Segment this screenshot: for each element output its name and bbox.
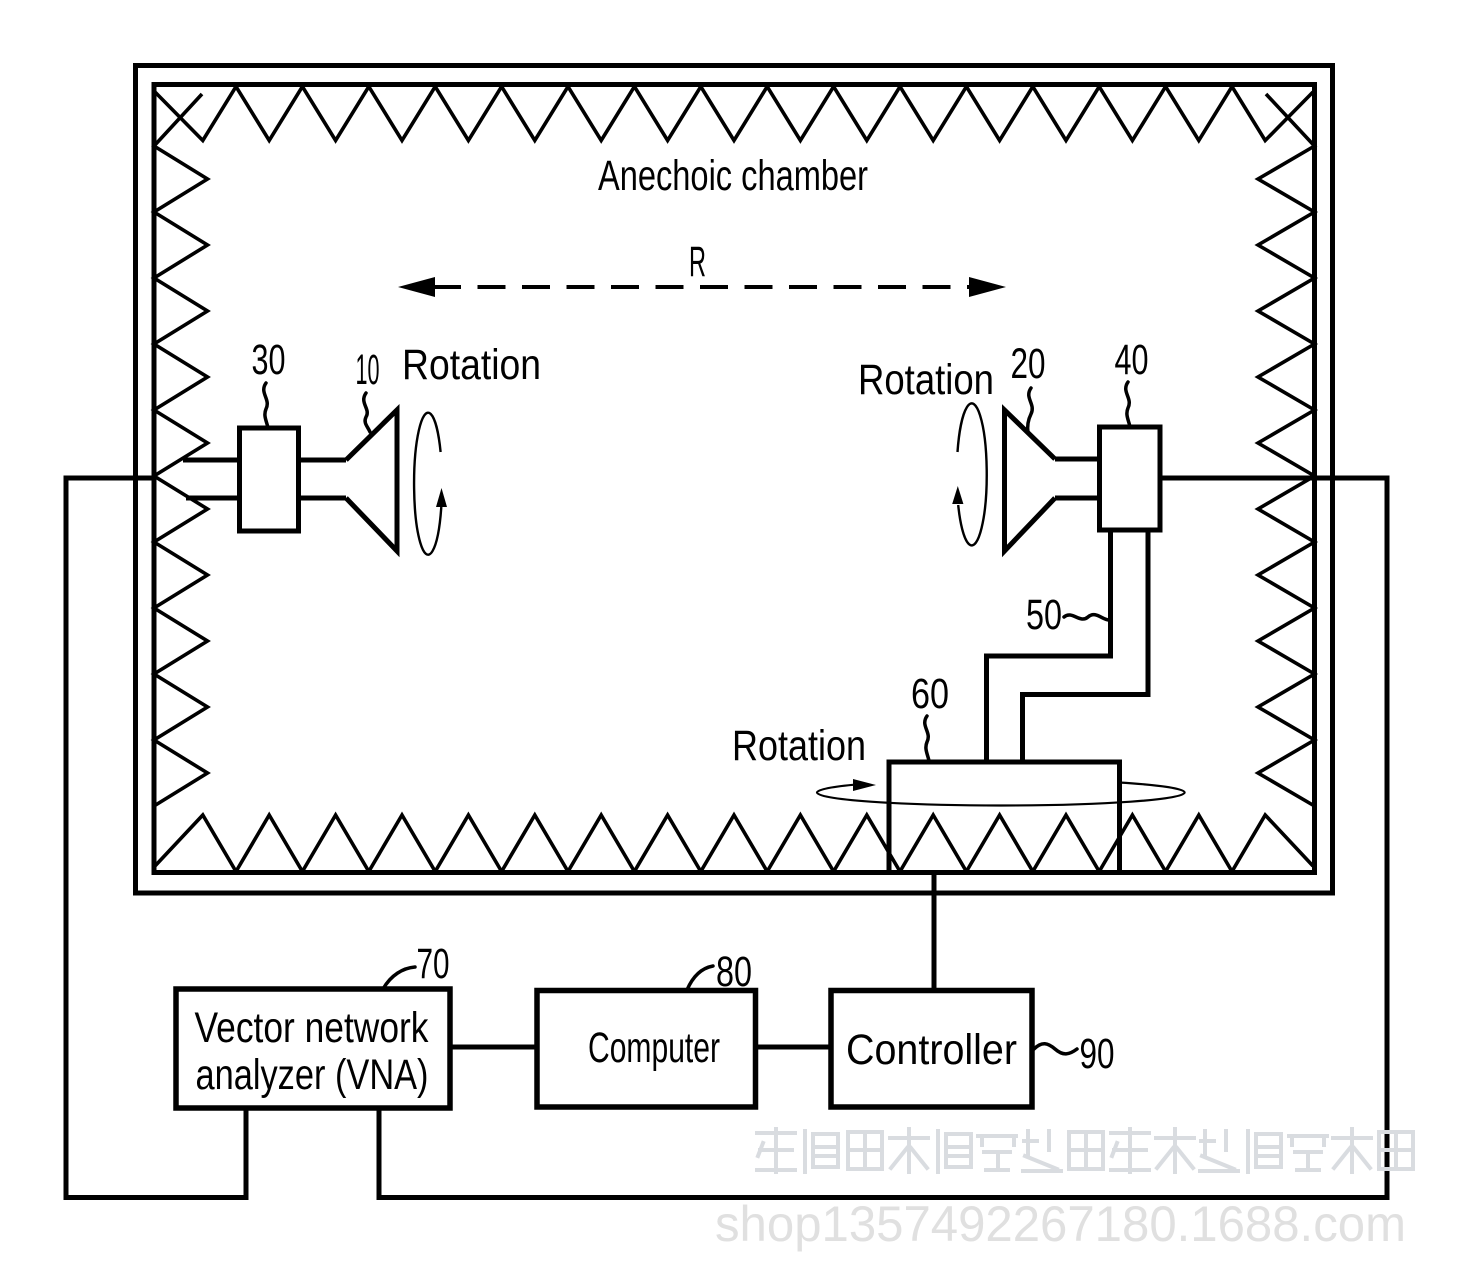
svg-text:10: 10: [356, 346, 380, 394]
wire VNA to transmit antenna (left exterior): [66, 478, 246, 1198]
leader line 50: [1064, 615, 1110, 620]
rotation ellipse left antenna: [414, 413, 441, 555]
wire positioner to controller: [932, 872, 937, 991]
box 90 controller: [831, 991, 1032, 1108]
leader line 40: [1126, 382, 1130, 427]
box 30 (antenna mount): [240, 428, 299, 531]
svg-text:R: R: [689, 238, 706, 286]
rotation ellipse positioner back arc right: [1119, 783, 1185, 793]
svg-text:60: 60: [911, 670, 949, 718]
horn antenna 10: [346, 410, 397, 551]
leader line 70: [383, 967, 415, 989]
absorber zigzag left wall: [154, 94, 208, 806]
svg-text:90: 90: [1080, 1030, 1115, 1078]
box 80 computer: [537, 991, 756, 1108]
support arm 50 inner line: [1023, 530, 1149, 762]
chamber inner wall: [154, 85, 1315, 873]
svg-text:20: 20: [1011, 340, 1046, 388]
box 40 (antenna mount): [1100, 427, 1161, 530]
svg-text:Computer: Computer: [588, 1024, 720, 1072]
wire VNA to computer: [450, 1045, 537, 1050]
svg-text:Anechoic chamber: Anechoic chamber: [598, 152, 868, 200]
leader line 80: [687, 966, 713, 990]
absorber zigzag bottom wall: [155, 815, 1313, 872]
svg-text:50: 50: [1026, 591, 1062, 639]
svg-text:Rotation: Rotation: [402, 341, 541, 389]
feed lines box 30: [183, 460, 346, 498]
rotation arrowhead right antenna: [952, 486, 963, 504]
leader line 20: [1028, 388, 1033, 433]
distance arrow R: [398, 277, 1006, 297]
box 70 vector network analyzer: [176, 989, 450, 1108]
rotation arrowhead left antenna: [436, 488, 447, 507]
leader line 90: [1034, 1044, 1077, 1054]
svg-text:shop1357492267180.1688.com: shop1357492267180.1688.com: [715, 1196, 1406, 1252]
svg-text:30: 30: [252, 336, 286, 384]
leader line 60: [925, 716, 929, 761]
leader line 30: [264, 383, 268, 428]
leader line 10: [364, 393, 370, 432]
rotation ellipse positioner front arc: [817, 793, 1185, 806]
svg-text:Controller: Controller: [846, 1026, 1017, 1074]
absorber zigzag right wall: [1258, 94, 1315, 806]
rotation ellipse positioner back arc left: [817, 785, 853, 793]
svg-text:Vector network: Vector network: [195, 1004, 429, 1052]
positioner platform 60: [889, 762, 1120, 872]
rotation ellipse right antenna: [958, 403, 987, 545]
support arm 50 outer line: [987, 530, 1111, 762]
wire computer to controller: [756, 1045, 832, 1050]
svg-text:analyzer (VNA): analyzer (VNA): [196, 1051, 429, 1099]
rotation arrowhead positioner: [853, 779, 876, 791]
absorber zigzag top wall: [155, 87, 1313, 141]
svg-text:Rotation: Rotation: [858, 356, 994, 404]
feed lines box 40: [1055, 459, 1100, 498]
svg-text:40: 40: [1115, 336, 1149, 384]
wire VNA to receive antenna (right exterior): [379, 478, 1387, 1198]
chamber outer wall: [136, 66, 1333, 894]
watermark chinese company name: [757, 1129, 1413, 1172]
svg-text:Rotation: Rotation: [732, 722, 866, 770]
horn antenna 20: [1005, 410, 1056, 551]
svg-text:70: 70: [417, 940, 450, 988]
